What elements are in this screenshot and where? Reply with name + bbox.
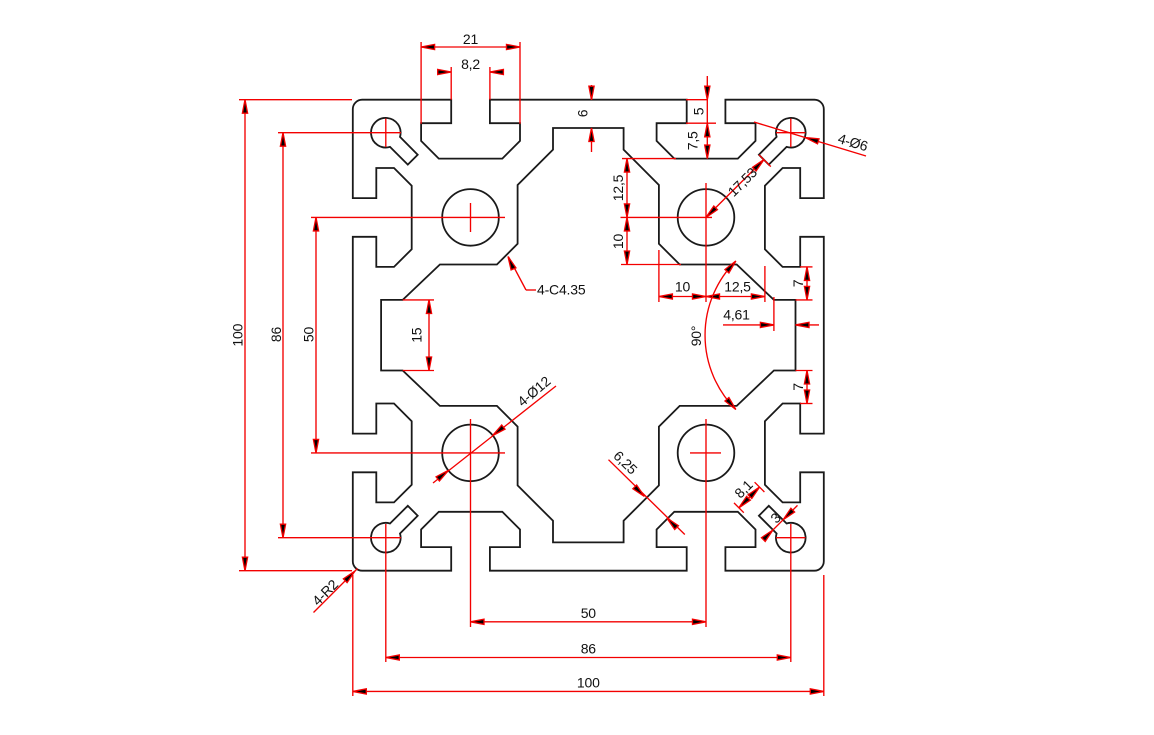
- dimension 8,2 top: [437, 56, 504, 100]
- dimensions 5 and 7,5 slot depths: [685, 76, 717, 159]
- svg-text:50: 50: [301, 327, 317, 343]
- dimension 15 notch: [403, 300, 434, 371]
- dimension 50 bottom: [471, 419, 707, 627]
- svg-text:4,61: 4,61: [723, 307, 750, 323]
- dimension 100 left: [230, 100, 353, 571]
- svg-text:6: 6: [575, 109, 591, 117]
- dimension 3 slot width: [762, 505, 798, 541]
- svg-text:50: 50: [581, 605, 597, 621]
- angle dimension 90 deg: [688, 261, 736, 410]
- label 4-Ø6 leader: [754, 122, 870, 156]
- dimensions 7 right side: [790, 267, 813, 404]
- dimensions 12,5 and 10 vertical: [610, 159, 681, 265]
- svg-text:10: 10: [610, 234, 626, 250]
- svg-text:12,5: 12,5: [724, 279, 751, 295]
- dimension 86 left: [268, 133, 401, 538]
- svg-text:86: 86: [268, 327, 284, 343]
- svg-text:4-C4.35: 4-C4.35: [537, 282, 586, 298]
- Ø12 hole top-left: [442, 189, 499, 246]
- svg-text:86: 86: [581, 641, 597, 657]
- dimension 4,61: [723, 297, 819, 331]
- dimension 21 top: [421, 31, 520, 124]
- label 4-C4.35 leader: [508, 257, 586, 298]
- dimension 86 bottom: [386, 524, 791, 662]
- svg-text:5: 5: [691, 107, 707, 115]
- svg-text:7: 7: [790, 383, 806, 391]
- dimension 8,1 slot length: [731, 476, 764, 512]
- dimension 6 wall depth: [575, 85, 595, 152]
- svg-text:21: 21: [463, 31, 479, 47]
- svg-text:12,5: 12,5: [610, 174, 626, 201]
- bottom-right corner keyhole Ø6: [759, 506, 806, 553]
- svg-text:8,2: 8,2: [461, 56, 480, 72]
- central cavity: [381, 128, 795, 542]
- svg-text:10: 10: [675, 279, 691, 295]
- svg-text:7: 7: [790, 279, 806, 287]
- top-left corner keyhole Ø6: [371, 118, 418, 165]
- dimension 100 bottom: [353, 575, 824, 696]
- dimensions 10 and 12,5 horizontal: [659, 250, 765, 302]
- dimension 17,53 diagonal: [706, 155, 771, 218]
- top-right corner keyhole Ø6: [759, 118, 806, 165]
- label 4-Ø12 diameter: [433, 373, 556, 483]
- label 4-R2 corner radius: [309, 569, 358, 613]
- svg-text:7,5: 7,5: [685, 131, 701, 150]
- svg-text:100: 100: [577, 675, 600, 691]
- svg-text:15: 15: [409, 327, 425, 343]
- dimension 50 left: [301, 217, 506, 453]
- centre marks: [386, 119, 806, 538]
- Ø12 hole bottom-right: [678, 425, 735, 482]
- svg-text:90°: 90°: [688, 326, 704, 347]
- profile outer boundary with 8 T-slots: [353, 100, 824, 571]
- dimension 6,25 strap width: [609, 447, 685, 534]
- Ø12 hole top-right: [678, 189, 735, 246]
- Ø12 hole bottom-left: [442, 425, 499, 482]
- svg-text:100: 100: [230, 323, 246, 346]
- bottom-left corner keyhole Ø6: [371, 506, 418, 553]
